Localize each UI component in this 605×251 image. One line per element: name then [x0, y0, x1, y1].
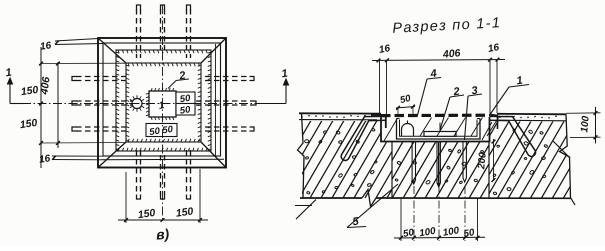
svg-text:16: 16	[39, 40, 52, 53]
svg-text:в): в)	[155, 225, 170, 242]
svg-text:150: 150	[19, 117, 38, 131]
svg-text:100: 100	[579, 115, 591, 133]
svg-text:406: 406	[441, 47, 461, 61]
svg-text:150: 150	[20, 84, 39, 98]
svg-text:150: 150	[175, 205, 194, 219]
svg-text:200: 200	[476, 152, 489, 171]
svg-text:16: 16	[38, 153, 51, 166]
svg-text:406: 406	[38, 76, 52, 96]
svg-text:150: 150	[137, 207, 156, 221]
